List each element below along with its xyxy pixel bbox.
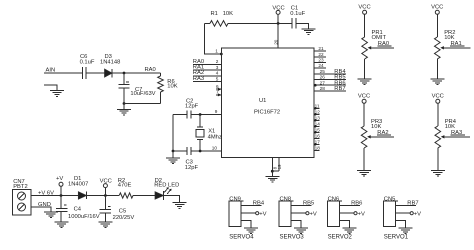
node crystal bottom [199,150,202,153]
wire PR2 wiper net RA1 [444,46,471,48]
pin 13 stub [314,119,320,121]
svg-text:SERVO3: SERVO3 [280,235,305,241]
svg-text:5: 5 [216,76,219,81]
wire D1 to R2 (VCC rail) [87,195,120,197]
svg-text:C4: C4 [74,206,82,212]
svg-text:PIC16F72: PIC16F72 [254,110,280,116]
wire CN5 pin2 to +V [396,212,411,214]
capacitor C1 0.1uF [290,6,305,29]
svg-text:10: 10 [212,145,218,150]
ground PR2 [430,79,444,85]
wire CN6 pin1 net RB6 [339,205,360,207]
wire D2 to ground [164,196,180,203]
svg-text:7: 7 [216,90,219,95]
connector CN8 [279,196,294,226]
svg-text:SERVO1: SERVO1 [384,235,409,241]
wire pin 4 net RA2 [193,75,222,77]
svg-text:VCC: VCC [432,94,444,100]
wire VCC to PR2 [436,14,438,37]
capacitor C5 220/25V [100,196,135,223]
svg-text:21: 21 [318,46,324,51]
power +V (CN5) [410,211,421,217]
svg-text:0.1uF: 0.1uF [290,11,305,17]
wire pin 5 net RA3 [193,81,222,83]
wire CN9 pin2 to +V [241,212,256,214]
wire R1 to MCLR pin 1 [205,23,222,54]
node pin 12 [314,113,316,115]
svg-text:28: 28 [320,86,326,91]
wire osc left rail [172,115,174,152]
wire CN7 to D1 (+V rail) [31,195,78,197]
potentiometer PR3 10K [361,119,382,148]
wire VCC to PR3 [363,103,365,126]
svg-text:26: 26 [320,75,326,80]
diode D2 RED LED [154,178,179,200]
pin 23 stub [314,62,326,64]
svg-text:22: 22 [318,52,324,57]
wire VCC to PR4 [437,103,439,126]
wire C6 to D3 [87,72,105,74]
node pin 15 [314,131,316,133]
svg-text:VCC: VCC [358,94,370,100]
wire AIN to C6 [44,72,82,74]
ground osc [166,151,180,164]
potentiometer PR2 10K [435,30,456,59]
ground CN5 [399,228,413,234]
ground D2 [173,203,187,209]
ground C4 [55,222,69,228]
ground at C1 [302,29,316,35]
crystal X1 4Mhz [196,115,222,152]
wire pin 3 net RA1 [193,69,222,71]
node osc rail / ground [172,150,175,153]
pin 21 stub [314,50,326,52]
ground PR4 [431,171,445,177]
diode D3 1N4148 [100,54,120,77]
svg-text:12pF: 12pF [185,165,199,171]
wire CN8 pin1 net RB5 [291,205,312,207]
wire D3 to R6 (net RA0) [112,72,160,74]
pin 18 stub [314,149,320,151]
wire PR4 bottom [437,148,439,171]
power VCC (PR2) [431,5,443,15]
capacitor C6 [80,54,95,79]
wire CN7 GND [31,207,51,212]
svg-text:220/25V: 220/25V [113,215,135,221]
pin 7 stub [216,93,222,96]
pin 11 stub [314,107,320,109]
svg-text:RED LED: RED LED [154,182,179,188]
svg-text:RA3: RA3 [193,76,204,82]
node VSS [271,170,274,173]
svg-text:10K: 10K [223,11,233,17]
node junction D3/C7 [123,72,126,75]
wire VCC to PR1 [364,14,366,37]
ground CN8 [294,228,308,234]
svg-text:RB7: RB7 [334,86,345,92]
power VCC (top) [272,6,284,24]
svg-text:+V: +V [310,211,317,217]
node pin1 [220,53,223,56]
node VCC/C1/pin20 [277,22,280,25]
wire CN9 pin1 net RB4 [241,205,262,207]
node pin 14 [314,125,316,127]
svg-text:R1: R1 [211,11,218,17]
svg-text:1N4148: 1N4148 [100,60,120,66]
wire R2 to D2 [133,195,155,197]
op-amp U1 PIC16F72 body [222,48,315,158]
capacitor C4 1000uF/16V [56,196,100,223]
svg-text:RB6: RB6 [351,201,362,207]
wire pin 28 net RB7 [314,90,346,92]
power VCC tap [100,178,112,195]
wire PR3 wiper net RA2 [370,135,394,137]
wire R1 to VCC node [228,22,292,24]
pin 6 stub [216,88,222,91]
ground under C7 [117,104,131,116]
diode D1 1N4007 [68,176,88,199]
resistor R1 10K [205,11,234,26]
pin 24 stub [314,67,326,69]
resistor R2 470E [118,178,133,198]
power +V tap [56,176,63,196]
capacitor C2 12pF [185,98,199,118]
ground VSS [266,171,280,182]
connector CN7 PBT2 [13,179,32,215]
ground CN9 [244,228,258,234]
svg-text:4: 4 [216,71,219,76]
capacitor C3 12pF [185,147,199,171]
node junction C7/ground [123,102,126,105]
power VCC (PR3) [358,94,370,104]
svg-text:RB4: RB4 [253,201,265,207]
node VCC / C5 [104,194,107,197]
pin 14 stub [314,125,320,127]
power +V (CN8) [306,211,317,217]
svg-text:U1: U1 [259,98,266,104]
wire PR1 wiper net RA0 [371,46,394,48]
pin 22 stub [314,56,326,58]
svg-text:1N4007: 1N4007 [68,182,88,188]
potentiometer PR4 10K [435,119,457,148]
wire CN6 pin2 to +V [339,212,354,214]
wire pin 2 net RA0 [193,64,222,66]
svg-text:0.1uF: 0.1uF [80,59,95,65]
node pin 13 [314,119,316,121]
svg-text:VCC: VCC [272,6,284,12]
svg-text:RB7: RB7 [407,201,418,207]
wire PR3 bottom [363,148,365,171]
svg-text:VCC: VCC [358,5,370,11]
ground PR1 [358,79,372,85]
svg-text:+V: +V [414,211,421,217]
wire pin 27 net RB6 [314,84,346,86]
svg-text:SERVO4: SERVO4 [229,235,254,241]
svg-text:9: 9 [215,109,218,114]
wire PR2 bottom [436,59,438,79]
power +V (CN6) [354,211,365,217]
connector CN5 [384,196,399,226]
svg-text:+V: +V [56,176,63,182]
svg-text:RA0: RA0 [145,67,156,73]
svg-text:AIN: AIN [46,67,56,73]
resistor R6 10K [158,73,178,104]
wire pin 26 net RB5 [314,79,346,81]
pin 17 stub [314,143,320,145]
svg-text:SERVO2: SERVO2 [328,235,353,241]
svg-text:23: 23 [318,58,324,63]
wire VSS pins 8 and 19 [272,158,279,172]
svg-text:24: 24 [318,63,324,68]
ground CN7 [44,212,58,218]
svg-text:4Mhz: 4Mhz [208,135,222,141]
node +V / C4 [60,194,63,197]
pin 12 stub [314,113,320,115]
svg-text:27: 27 [320,80,326,85]
ground PR3 [357,171,371,177]
svg-text:RB5: RB5 [303,201,314,207]
wire PR1 bottom [364,59,366,79]
svg-text:10K: 10K [167,84,177,90]
svg-text:12pF: 12pF [185,104,199,110]
svg-text:VCC: VCC [431,5,443,11]
connector CN6 [327,196,342,226]
svg-text:+V: +V [358,211,365,217]
node pin 11 [314,107,316,109]
ground CN6 [342,228,356,234]
wire pin 25 net RB4 [314,73,346,75]
svg-text:C5: C5 [119,208,126,214]
svg-text:19: 19 [277,164,282,169]
wire CN5 pin3 to ground [396,221,406,228]
svg-text:6: 6 [216,84,219,89]
wire CN8 pin2 to +V [291,212,306,214]
wire CN5 pin1 net RB7 [396,205,417,207]
wire VCC node to pin 20 [277,23,279,47]
pin 16 stub [314,137,320,139]
wire PR4 wiper net RA3 [444,135,470,137]
node crystal top [199,113,202,116]
connector CN9 [229,196,244,226]
node pin 27 [314,84,317,87]
svg-text:1: 1 [215,49,218,54]
svg-text:16: 16 [315,134,321,139]
svg-text:10uF/63V: 10uF/63V [130,91,155,97]
svg-text:20: 20 [273,39,278,45]
pin 15 stub [314,131,320,133]
ground input jack [44,85,64,96]
wire CN9 pin3 to ground [241,221,251,228]
wire R6 bottom to C7 [124,103,161,105]
svg-text:2: 2 [216,59,219,64]
potentiometer PR1 OMIT [362,30,387,59]
wire C1 to ground [296,23,309,28]
ground C5 [98,222,112,228]
power +V (CN9) [256,211,267,217]
wire pin 10 (OSC2) [173,150,222,152]
svg-text:1000uF/16V: 1000uF/16V [68,214,100,220]
capacitor C7 10uF/63V [119,73,156,104]
svg-text:25: 25 [320,69,326,74]
wire pin 9 (OSC1) [173,114,222,116]
node pin 17 [314,143,316,145]
svg-text:+V: +V [259,211,266,217]
wire CN8 pin3 to ground [291,221,301,228]
svg-text:3: 3 [216,65,219,70]
power VCC (PR1) [358,5,370,15]
wire CN6 pin3 to ground [339,221,349,228]
power VCC (PR4) [432,94,444,104]
svg-text:470E: 470E [118,182,132,188]
svg-text:18: 18 [315,146,321,151]
